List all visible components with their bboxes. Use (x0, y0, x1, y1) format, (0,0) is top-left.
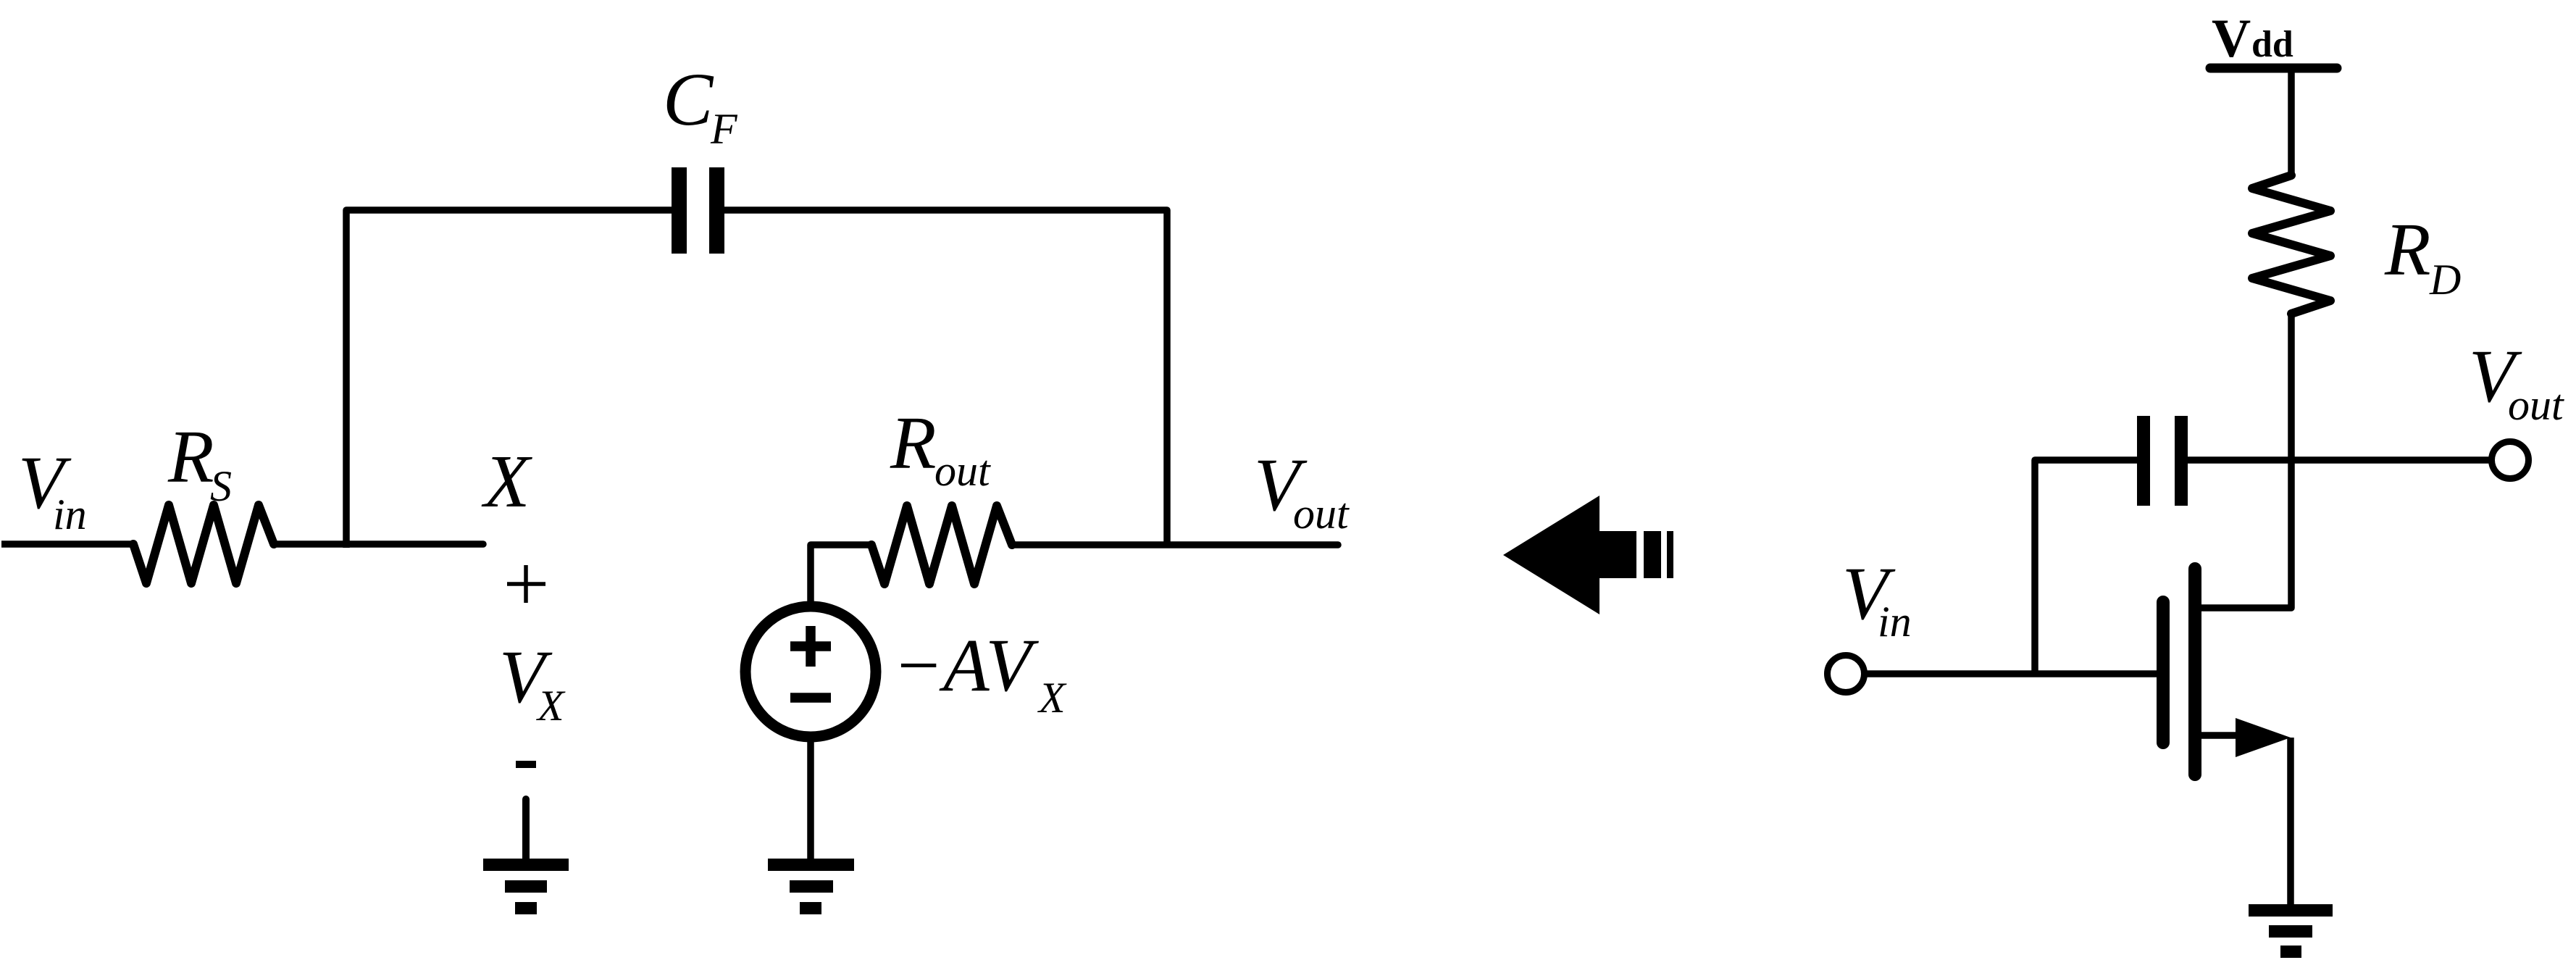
svg-text:dd: dd (2251, 24, 2293, 65)
ground (below VX) bars (483, 859, 569, 871)
svg-text:in: in (53, 491, 87, 538)
wire: below source to ground (807, 737, 814, 859)
ground (below source) bars (768, 859, 854, 871)
capacitor CF right plate (709, 167, 724, 254)
transistor M1 source arrow (2236, 718, 2291, 757)
svg-text:R: R (890, 401, 937, 485)
svg-text:X: X (481, 440, 532, 523)
svg-text:F: F (710, 105, 738, 153)
svg-text:X: X (536, 682, 566, 730)
svg-text:X: X (1037, 674, 1067, 722)
transistor M1 source wire (2201, 732, 2242, 739)
wire: Vin terminal to gate (1865, 670, 2157, 677)
svg-text:−AV: −AV (892, 624, 1040, 707)
terminal Vin (right circuit) (1828, 656, 1865, 693)
plus sign at node X (507, 565, 545, 603)
capacitor (gate-drain) left plate (2137, 416, 2150, 506)
wire: Vsource top to Rout and output row (811, 545, 871, 606)
svg-text:D: D (2429, 256, 2461, 304)
dependent source -AVX circle (745, 606, 876, 737)
svg-text:out: out (2508, 381, 2564, 429)
resistor RS (133, 505, 274, 583)
svg-text:R: R (167, 415, 214, 498)
wire: input wire Vin to Rs (1, 540, 135, 548)
svg-text:in: in (1878, 598, 1912, 646)
svg-text:V: V (2212, 9, 2251, 69)
wire: gate branch up and to gate capacitor (2035, 460, 2137, 674)
svg-text:out: out (934, 447, 991, 495)
terminal Vout (right circuit) (2492, 442, 2529, 479)
svg-text:S: S (210, 462, 232, 510)
svg-text:out: out (1293, 490, 1350, 538)
wire: capacitor to Vout terminal (2188, 456, 2489, 464)
wire: Rout to Vout end (output row) (1012, 541, 1338, 548)
minus sign below VX (516, 761, 536, 768)
capacitor (gate-drain) right plate (2175, 416, 2188, 506)
wire: Rs to node X (274, 540, 483, 548)
transistor M1 gate bar (2157, 602, 2170, 743)
resistor Rout (871, 506, 1012, 584)
plus sign inside source (790, 626, 831, 667)
power rail Vdd (2210, 64, 2337, 73)
minus sign inside source (790, 693, 831, 703)
svg-text:C: C (663, 58, 714, 141)
wire: Vdd rail to RD (2288, 68, 2295, 177)
wire: vertical branch up from node X row and top wire to CF (346, 210, 672, 548)
svg-text:R: R (2384, 208, 2431, 291)
big arrow (right to left) (1503, 496, 1636, 614)
wire: CF to right vertical, down to Vout row (724, 210, 1167, 545)
transistor M1 channel bar (2188, 569, 2201, 775)
resistor RD (2252, 175, 2330, 314)
capacitor CF left plate (672, 167, 687, 254)
wire: source to ground (2287, 738, 2294, 904)
wire: RD to drain (2201, 312, 2291, 608)
ground (right circuit) bars (2249, 904, 2333, 917)
ground (below VX) stub (522, 799, 530, 859)
